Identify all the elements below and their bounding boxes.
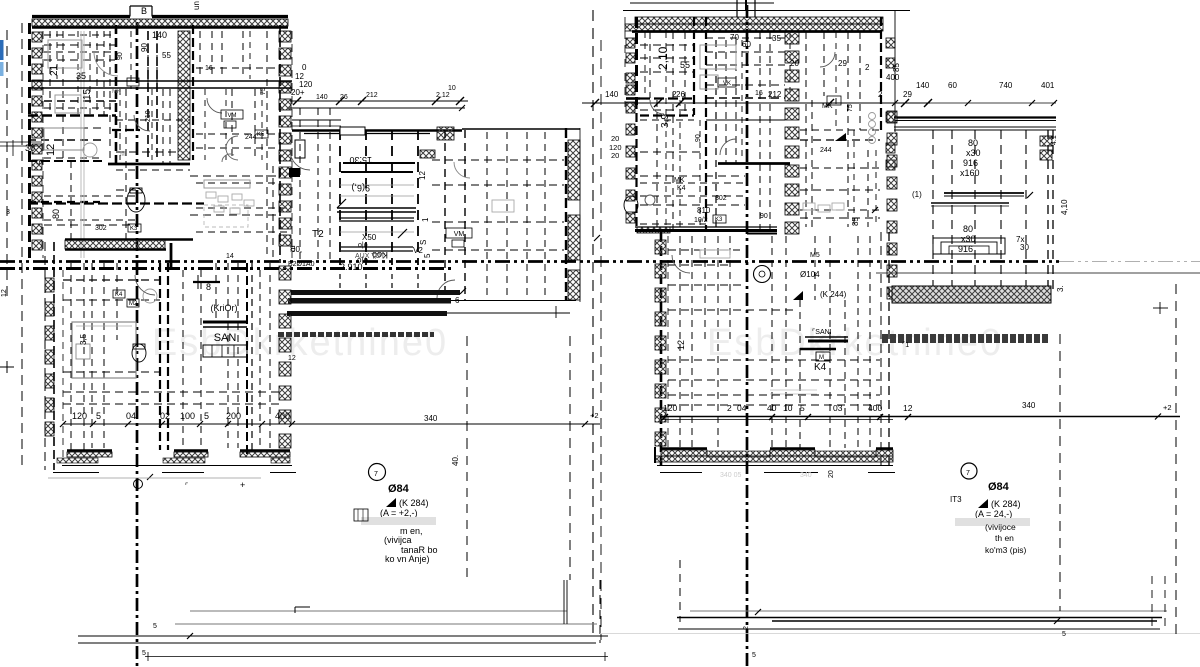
svg-text:X50: X50 [362, 233, 377, 242]
svg-text:ko'm3 (pis): ko'm3 (pis) [985, 545, 1026, 555]
svg-text:2,10: 2,10 [656, 46, 670, 70]
svg-text:5: 5 [142, 650, 146, 657]
svg-text:5: 5 [800, 403, 805, 413]
svg-text:40.: 40. [451, 455, 460, 466]
svg-text:T2: T2 [312, 229, 324, 240]
svg-text:85: 85 [851, 217, 860, 226]
svg-text:MK: MK [674, 177, 685, 184]
svg-text:x30: x30 [966, 148, 981, 158]
svg-text:140: 140 [605, 90, 619, 99]
svg-text:5: 5 [35, 160, 45, 165]
svg-text:Ø84: Ø84 [988, 481, 1010, 493]
svg-text:VM: VM [454, 231, 465, 238]
svg-text:(K 284): (K 284) [991, 499, 1021, 509]
svg-text:3: 3 [6, 209, 10, 216]
svg-text:140: 140 [152, 30, 167, 40]
svg-text:55: 55 [162, 51, 171, 60]
svg-text:40: 40 [767, 403, 777, 413]
svg-text:810: 810 [697, 206, 711, 215]
svg-text:K4: K4 [115, 292, 123, 298]
svg-text:120: 120 [72, 411, 87, 421]
svg-text:M: M [819, 355, 824, 361]
svg-text:14: 14 [226, 253, 234, 260]
svg-text:+2: +2 [1163, 403, 1172, 412]
svg-text:212: 212 [366, 92, 378, 99]
svg-text:55: 55 [680, 60, 690, 70]
svg-text:21: 21 [49, 64, 60, 76]
svg-text:740: 740 [999, 81, 1013, 90]
svg-text:5: 5 [1062, 631, 1066, 638]
svg-text:400: 400 [886, 73, 900, 82]
svg-text:3,5: 3,5 [79, 333, 88, 345]
svg-text:⌜: ⌜ [185, 482, 188, 490]
svg-text:th en: th en [995, 533, 1014, 543]
svg-text:04: 04 [126, 411, 136, 421]
svg-text:5: 5 [423, 253, 432, 258]
svg-text:120: 120 [663, 403, 677, 413]
svg-text:(vivijca: (vivijca [384, 535, 412, 545]
svg-text:20: 20 [611, 134, 619, 143]
svg-text:(A = 24,-): (A = 24,-) [975, 509, 1012, 519]
svg-text:4,10: 4,10 [1060, 199, 1069, 215]
svg-text:Ø84: Ø84 [388, 483, 410, 495]
svg-text:80: 80 [963, 224, 973, 234]
svg-text:30: 30 [25, 143, 35, 153]
svg-text:244: 244 [820, 147, 832, 154]
svg-text:8: 8 [206, 282, 211, 292]
svg-text:VM: VM [228, 113, 237, 119]
svg-text:200: 200 [226, 411, 241, 421]
svg-text:(A = +2,-): (A = +2,-) [380, 508, 418, 518]
svg-text:MK: MK [822, 103, 833, 110]
svg-text:90: 90 [117, 52, 124, 60]
svg-text:340: 340 [800, 472, 812, 479]
svg-text:K3: K3 [715, 217, 723, 223]
svg-text:12: 12 [288, 355, 296, 362]
svg-text:20+: 20+ [291, 88, 305, 97]
svg-text:12: 12 [418, 171, 427, 180]
svg-text:⌜SANI: ⌜SANI [812, 328, 832, 336]
svg-text:20: 20 [790, 59, 799, 68]
svg-text:29: 29 [838, 59, 847, 68]
svg-text:B: B [141, 6, 147, 16]
svg-text:7: 7 [374, 471, 378, 478]
svg-text:26: 26 [340, 94, 348, 101]
svg-text:x30: x30 [961, 234, 976, 244]
svg-text:10/2: 10/2 [694, 217, 708, 224]
svg-text:(K 244): (K 244) [820, 290, 847, 299]
svg-text:(K 284): (K 284) [399, 498, 429, 508]
svg-text:16: 16 [755, 90, 763, 97]
svg-text:70: 70 [730, 33, 739, 42]
svg-text:212: 212 [768, 90, 782, 99]
svg-text:80: 80 [51, 209, 61, 219]
svg-text:x160: x160 [960, 168, 980, 178]
svg-text:916: 916 [958, 244, 973, 254]
svg-text:16: 16 [205, 65, 213, 72]
svg-text:+: + [240, 480, 245, 490]
svg-text:1: 1 [421, 217, 430, 222]
svg-text:4.1: 4.1 [1051, 135, 1058, 145]
svg-text:60: 60 [742, 40, 751, 49]
svg-text:M2: M2 [129, 301, 138, 307]
svg-text:10: 10 [448, 85, 456, 92]
svg-text:B2Ø1A0: B2Ø1A0 [288, 261, 315, 268]
svg-text:K3: K3 [130, 226, 138, 232]
svg-text:400: 400 [275, 411, 290, 421]
svg-text:340: 340 [424, 414, 438, 423]
svg-text:140: 140 [916, 81, 930, 90]
svg-text:AUX TOT: AUX TOT [355, 253, 386, 260]
svg-text:12: 12 [1, 289, 8, 297]
svg-text:M: M [120, 151, 126, 158]
svg-text:90: 90 [695, 134, 702, 142]
svg-text:85: 85 [892, 63, 901, 72]
svg-text:5: 5 [96, 411, 101, 421]
svg-text:90: 90 [140, 43, 149, 52]
svg-text:EsbDkrketnine0: EsbDkrketnine0 [152, 322, 448, 364]
svg-text:M5: M5 [810, 252, 820, 259]
svg-text:80: 80 [968, 138, 978, 148]
svg-text:04: 04 [737, 403, 747, 413]
svg-text:340: 340 [1022, 401, 1036, 410]
svg-text:20: 20 [611, 151, 619, 160]
svg-text:⌜1: ⌜1 [902, 341, 909, 349]
svg-text:340 05: 340 05 [720, 472, 742, 479]
svg-text:400: 400 [868, 403, 882, 413]
svg-text:10: 10 [783, 403, 793, 413]
svg-text:100: 100 [180, 411, 195, 421]
svg-text:302: 302 [95, 225, 107, 232]
svg-text:Ø104: Ø104 [800, 270, 820, 279]
svg-text:K5: K5 [257, 132, 265, 138]
svg-text:2: 2 [865, 63, 870, 72]
svg-text:2: 2 [743, 626, 750, 630]
svg-text:7: 7 [966, 470, 970, 477]
svg-text:VK: VK [723, 81, 731, 87]
svg-text:K4: K4 [677, 185, 686, 192]
svg-text:12: 12 [45, 144, 57, 156]
svg-text:(KriOr): (KriOr) [211, 303, 238, 313]
svg-text:302: 302 [715, 195, 727, 202]
svg-text:9(6,): 9(6,) [351, 183, 370, 193]
svg-text:15: 15 [82, 88, 93, 100]
svg-text:5: 5 [153, 623, 157, 630]
svg-text:35: 35 [772, 34, 781, 43]
svg-text:02: 02 [160, 411, 170, 421]
svg-text:3.: 3. [1056, 285, 1065, 292]
svg-text:SAN: SAN [214, 332, 237, 344]
svg-text:(1): (1) [912, 190, 922, 199]
svg-text:20: 20 [828, 470, 835, 478]
svg-text:12: 12 [903, 403, 913, 413]
svg-text:6: 6 [455, 296, 460, 305]
svg-text:S: S [419, 240, 428, 245]
svg-text:IT3: IT3 [950, 495, 962, 504]
svg-text:916: 916 [963, 158, 978, 168]
svg-text:90: 90 [760, 213, 768, 220]
svg-text:140: 140 [316, 94, 328, 101]
svg-text:35: 35 [76, 71, 86, 81]
svg-text:60: 60 [948, 81, 957, 90]
svg-text:12: 12 [676, 340, 686, 350]
svg-text:2,12: 2,12 [436, 92, 450, 99]
svg-text:o|o: o|o [358, 242, 368, 249]
svg-text:ko vn Anje): ko vn Anje) [385, 554, 430, 564]
svg-text:2.910: 2.910 [340, 262, 363, 272]
svg-text:30: 30 [1020, 243, 1029, 252]
svg-text:+2: +2 [590, 411, 599, 420]
svg-text:un: un [192, 1, 201, 10]
svg-text:5: 5 [752, 652, 756, 659]
svg-text:2: 2 [727, 403, 732, 413]
svg-text:29: 29 [903, 90, 912, 99]
svg-text:K4: K4 [814, 362, 827, 373]
svg-text:401: 401 [1041, 81, 1055, 90]
svg-text:0: 0 [302, 63, 307, 72]
svg-text:MK: MK [112, 89, 121, 95]
svg-text:03: 03 [833, 403, 843, 413]
svg-text:15:30: 15:30 [349, 155, 372, 165]
svg-text:5: 5 [204, 411, 209, 421]
svg-text:V2: V2 [413, 246, 423, 255]
svg-text:(vivijoce: (vivijoce [985, 522, 1016, 532]
svg-text:m: m [288, 245, 297, 252]
